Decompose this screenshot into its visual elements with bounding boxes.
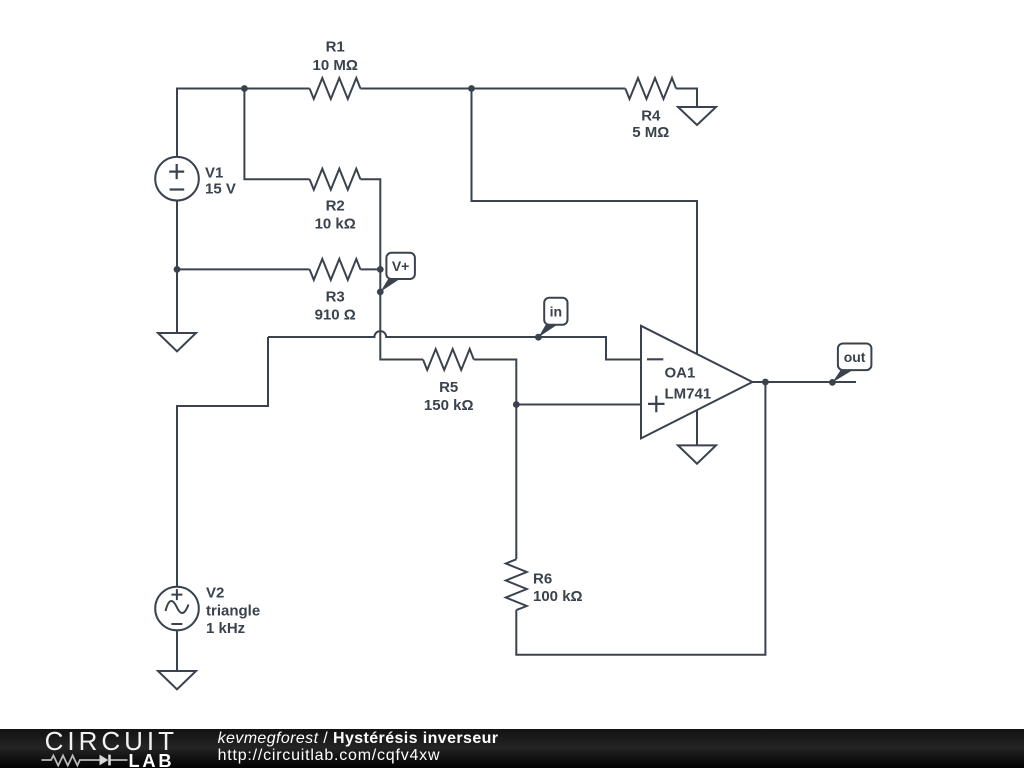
flag V+ box (386, 253, 415, 279)
wire junction to R2 (244, 89, 309, 180)
node junction dot R1/R2/V1 (241, 85, 248, 92)
CircuitLab logo wordmark (45, 726, 178, 757)
wire R2 right lead down column (360, 179, 380, 269)
resistor R6 (506, 559, 527, 610)
svg-text:LM741: LM741 (665, 386, 712, 403)
svg-text:R3: R3 (326, 289, 345, 306)
node out anchor dot (829, 379, 836, 386)
wire R1 left lead (244, 88, 309, 90)
resistor R1 (310, 78, 361, 99)
wire plus input (516, 404, 641, 406)
ground below V1 (158, 333, 196, 351)
svg-text:910 Ω: 910 Ω (315, 307, 356, 324)
node V+ anchor dot (377, 289, 384, 296)
footer url line (218, 747, 441, 765)
svg-text:V+: V+ (392, 258, 410, 274)
flag out tail (832, 370, 853, 383)
flag in box (544, 298, 567, 325)
svg-text:R6: R6 (533, 571, 552, 588)
wire V1 top to R1 row (177, 89, 244, 157)
svg-text:5 MΩ: 5 MΩ (632, 124, 669, 141)
wire R1 to R4 (360, 88, 625, 90)
svg-text:1 kHz: 1 kHz (206, 620, 245, 637)
resistor R4 (625, 78, 676, 99)
node junction dot output (762, 379, 769, 386)
wire V2 bottom to ground (176, 630, 178, 671)
source V2 (155, 587, 199, 631)
svg-text:in: in (550, 303, 562, 319)
source V1 (155, 157, 199, 201)
ground near R4 (678, 107, 716, 125)
svg-text:OA1: OA1 (665, 365, 696, 382)
op-amp U1 OA1 body (641, 326, 752, 439)
svg-text:V1: V1 (205, 165, 223, 182)
wire R3 right lead (360, 268, 380, 270)
node in anchor dot (535, 334, 542, 341)
logo resistor+diode symbol (40, 752, 132, 768)
flag out box (838, 344, 872, 371)
ground below op-amp (678, 445, 716, 463)
svg-text:10 kΩ: 10 kΩ (315, 216, 356, 233)
wire R3 left lead (177, 268, 310, 270)
svg-text:out: out (844, 349, 866, 365)
svg-text:R1: R1 (326, 39, 345, 56)
op-amp minus sign (647, 358, 663, 360)
op-amp plus sign (648, 396, 665, 413)
node junction dot R1/R4/supply (468, 85, 475, 92)
svg-text:triangle: triangle (206, 603, 260, 620)
resistor R3 (310, 259, 361, 280)
footer credit line (218, 730, 499, 748)
wire V+ column down to R5 (380, 269, 423, 359)
wire R5 right lead to plus node (474, 360, 517, 405)
svg-text:V2: V2 (206, 585, 224, 602)
node junction dot R3/column (377, 266, 384, 273)
svg-text:150 kΩ: 150 kΩ (424, 397, 474, 414)
wire R6 bottom to out column (516, 382, 765, 655)
flag in tail (538, 324, 558, 337)
ground below V2 (158, 671, 196, 689)
svg-text:R4: R4 (641, 108, 661, 125)
svg-text:R5: R5 (439, 379, 458, 396)
footer bar (0, 729, 1024, 768)
wire supply from R1 row to op-amp top pin (472, 89, 698, 356)
resistor R2 (310, 169, 361, 190)
wire output (752, 381, 856, 383)
svg-text:R2: R2 (326, 198, 345, 215)
svg-text:10 MΩ: 10 MΩ (313, 57, 358, 74)
wire V2 to in row (177, 337, 268, 587)
wire op-amp bottom pin to ground (696, 410, 698, 446)
node junction dot V1/R3/gnd (174, 266, 181, 273)
svg-text:15 V: 15 V (205, 181, 236, 198)
node junction dot R5/R6/plus (513, 401, 520, 408)
svg-text:100 kΩ: 100 kΩ (533, 588, 583, 605)
wire in row with hop (268, 331, 641, 359)
wire plus node down to R6 (515, 405, 517, 560)
wire V1 bottom to ground (176, 201, 178, 333)
resistor R5 (423, 349, 474, 370)
wire R4 right lead to ground (676, 89, 697, 108)
flag V+ tail (380, 279, 400, 292)
